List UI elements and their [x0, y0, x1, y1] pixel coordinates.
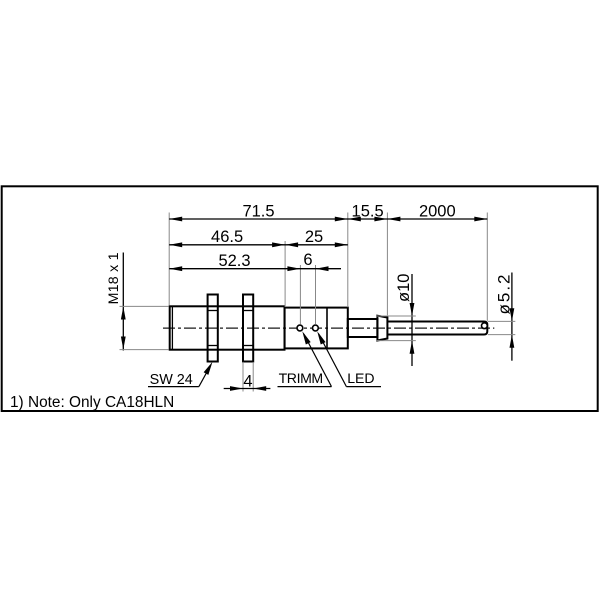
dimension ø10 vertical line — [411, 274, 413, 366]
rear housing — [285, 308, 348, 349]
LED circle — [313, 325, 319, 331]
svg-text:46.5: 46.5 — [211, 228, 243, 246]
ø10 extension line bottom — [376, 340, 416, 342]
border frame (drawing box) — [2, 186, 598, 411]
M18 extension line bottom — [120, 349, 169, 351]
cable gland — [348, 319, 378, 337]
extension line at trimmer x=300.4 — [299, 265, 301, 325]
svg-text:1) Note: Only CA18HLN: 1) Note: Only CA18HLN — [10, 394, 174, 411]
centerline — [163, 327, 494, 329]
cable bushing cone — [377, 316, 387, 341]
svg-text:52.3: 52.3 — [218, 252, 250, 270]
svg-text:71.5: 71.5 — [242, 203, 274, 221]
dimension 4 extension line right — [252, 362, 254, 392]
svg-text:M18 x 1: M18 x 1 — [106, 252, 122, 304]
cable — [387, 322, 487, 335]
extension line at housing rear x=347.8 — [347, 213, 349, 308]
dimension ø5.2 vertical line — [511, 273, 513, 361]
svg-text:SW 24: SW 24 — [150, 372, 193, 388]
svg-text:ø10: ø10 — [395, 274, 413, 302]
dimension 4 extension line left — [242, 362, 244, 392]
svg-text:LED: LED — [347, 370, 374, 386]
dimension 52.3 / 6 line — [169, 268, 341, 270]
svg-text:25: 25 — [305, 228, 323, 246]
svg-text:ø5.2: ø5.2 — [495, 272, 514, 314]
M18 extension line top — [120, 305, 169, 307]
svg-text:6: 6 — [303, 251, 312, 269]
trimmer potentiometer circle — [297, 325, 303, 331]
hex nut 2 — [243, 295, 253, 362]
dimension 71.5 / 15.5 / 2000 line — [169, 218, 487, 220]
extension line at cable end x=487.3 — [486, 213, 488, 321]
svg-text:15.5: 15.5 — [352, 203, 384, 221]
ø5.2 extension line top — [488, 320, 515, 322]
sensor barrel (M18 threaded body) — [170, 306, 285, 349]
hex nut 1 — [208, 295, 218, 362]
extension line at sensing face x=169.2 — [168, 213, 170, 306]
cable end loop — [482, 323, 488, 329]
extension line at cone end x=387.4 — [386, 213, 388, 316]
svg-text:4: 4 — [243, 372, 252, 390]
housing end-cap divider — [326, 308, 328, 349]
svg-text:2000: 2000 — [419, 203, 456, 221]
svg-text:TRIMM: TRIMM — [279, 370, 323, 386]
extension line at LED x=315.5 — [315, 265, 317, 325]
dimension 4 line — [224, 388, 271, 390]
dimension 46.5 / 25 line — [169, 244, 348, 246]
extension line at barrel/housing joint x=285.1 — [284, 241, 286, 307]
sensing face inner line — [171, 306, 173, 349]
ø5.2 extension line bottom — [488, 334, 515, 336]
ø10 extension line top — [376, 315, 416, 317]
dimension M18x1 vertical line — [122, 253, 124, 351]
